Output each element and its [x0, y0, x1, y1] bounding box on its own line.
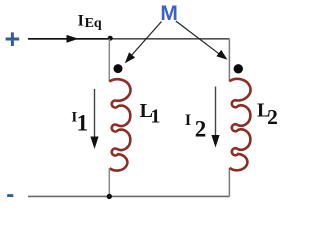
polarity dot right [234, 64, 243, 73]
wire bottom horizontal [28, 195, 229, 197]
label I1 [71, 109, 88, 135]
svg-text:1: 1 [150, 105, 160, 127]
svg-text:1: 1 [77, 111, 89, 136]
svg-text:I: I [78, 12, 84, 29]
current arrow IEq [28, 35, 110, 43]
svg-text:-: - [6, 181, 14, 206]
polarity dot left [114, 64, 123, 73]
wire left vertical lower [108, 168, 110, 196]
wire right vertical upper [228, 39, 230, 81]
inductor L1 [109, 79, 130, 170]
label L1 [140, 100, 161, 128]
wire top horizontal [28, 38, 229, 40]
current arrow I2 [211, 87, 219, 148]
node junction bottom [107, 194, 112, 199]
current arrow I1 [90, 89, 98, 149]
svg-text:+: + [5, 24, 21, 54]
label I2 [185, 112, 206, 141]
svg-text:2: 2 [267, 105, 278, 129]
arrow M to left dot [125, 22, 162, 64]
svg-text:M: M [160, 2, 178, 25]
node junction top [108, 36, 113, 41]
wire right vertical lower [228, 168, 230, 197]
svg-text:Eq: Eq [85, 16, 102, 31]
wire left vertical upper [108, 39, 110, 82]
label IEq [78, 12, 102, 31]
arrow M to right dot [176, 21, 228, 60]
svg-text:2: 2 [195, 116, 207, 141]
label L2 [257, 100, 278, 130]
svg-text:I: I [185, 112, 191, 129]
inductor L2 [229, 79, 250, 170]
